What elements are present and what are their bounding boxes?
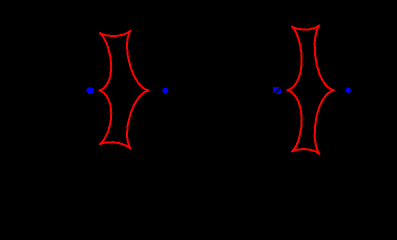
- caustic curve left panel: [99, 31, 148, 149]
- lens dot 4 (right panel secondary lens): [346, 88, 351, 93]
- lens dot 1 (left panel primary lens): [86, 87, 94, 94]
- caustic curve right panel: [287, 25, 333, 154]
- slash across lens dot 3: [272, 87, 281, 96]
- lens dot 3 (right panel primary lens): [273, 87, 281, 94]
- lens dot 2 (left panel secondary lens): [162, 88, 168, 94]
